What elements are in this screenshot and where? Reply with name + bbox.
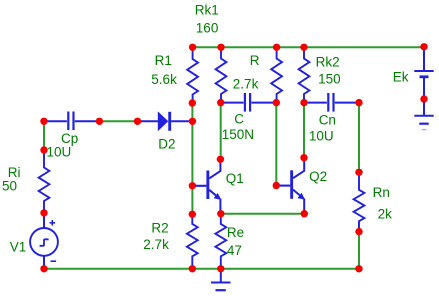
node Cn right <box>355 99 362 106</box>
svg-text:Q1: Q1 <box>226 171 244 186</box>
node R1 bottom <box>189 99 196 106</box>
node R2 bottom rail <box>189 265 196 272</box>
resistor R1 5.6k <box>187 48 198 103</box>
node Re top <box>217 210 224 217</box>
svg-text:Ek: Ek <box>393 70 409 85</box>
svg-text:47: 47 <box>227 243 242 258</box>
node Rn bottom <box>355 228 362 235</box>
svg-text:Rk1: Rk1 <box>195 3 219 18</box>
resistor Rk2 150 <box>299 48 310 103</box>
svg-text:50: 50 <box>2 179 17 194</box>
node Rk2 top <box>300 44 307 51</box>
capacitor C 150N <box>221 93 277 112</box>
svg-text:Rn: Rn <box>373 185 390 200</box>
svg-text:150N: 150N <box>222 127 254 142</box>
svg-text:R1: R1 <box>155 53 172 68</box>
wire bottom rail <box>44 268 359 270</box>
node R top <box>273 44 280 51</box>
ground under Ek <box>414 116 433 130</box>
wire Rk2 bottom to Q2 collector <box>303 103 305 158</box>
node R2 top <box>189 211 196 218</box>
svg-text:Rk2: Rk2 <box>316 55 340 70</box>
node rail corner Rn <box>355 265 362 272</box>
node Q2 emitter <box>301 210 308 217</box>
resistor R2 2.7k <box>187 214 198 268</box>
node Q2 collector <box>300 154 307 161</box>
svg-text:2k: 2k <box>378 207 393 222</box>
node Rn top <box>355 169 362 176</box>
node C left <box>217 99 224 106</box>
node Ri top <box>40 146 47 153</box>
ground under Re <box>211 269 231 290</box>
resistor R 2.7k <box>271 48 282 103</box>
svg-text:5.6k: 5.6k <box>151 72 177 87</box>
wire Rk1 bottom to Q1 collector <box>220 103 222 160</box>
resistor Ri 50 <box>39 150 50 213</box>
source V1 <box>30 213 58 269</box>
node Ri bottom V1 plus <box>40 209 47 216</box>
node D2 anode <box>134 118 141 125</box>
svg-text:Re: Re <box>227 225 244 240</box>
svg-text:R: R <box>250 53 260 68</box>
svg-text:D2: D2 <box>158 137 175 152</box>
node Ek top <box>420 43 427 50</box>
svg-text:V1: V1 <box>10 240 27 255</box>
node Ek mid <box>420 95 427 102</box>
node Q1 collector <box>217 156 224 163</box>
capacitor Cp 10U <box>44 112 99 131</box>
svg-text:2.7k: 2.7k <box>233 77 259 92</box>
node Cp right <box>96 118 103 125</box>
diode D2 <box>138 111 193 131</box>
svg-text:10U: 10U <box>309 129 334 144</box>
wire left column Cp node to Ri top <box>43 121 45 150</box>
transistor Q1 <box>192 159 221 214</box>
wire emitter bus Re top to Q2 emitter <box>221 213 304 215</box>
wire top rail <box>193 46 424 48</box>
wire R bottom to Q2 base <box>275 103 277 186</box>
node D2 cathode <box>189 118 196 125</box>
resistor Re 47 <box>215 214 226 269</box>
svg-text:C: C <box>234 112 244 127</box>
wire between Cp and D2 <box>99 120 137 122</box>
node V1 minus rail <box>40 265 47 272</box>
wire Rn bottom to bottom rail <box>358 232 360 269</box>
capacitor Cn 10U <box>304 93 359 112</box>
wire Cn right node down to Rn top <box>358 103 360 173</box>
wire D2 cathode node down to R2 top (Q1 base tap) <box>191 103 193 214</box>
node Q1 base <box>189 182 196 189</box>
node Cn left <box>300 99 307 106</box>
svg-text:150: 150 <box>318 72 341 87</box>
svg-text:160: 160 <box>196 21 219 36</box>
node Cp left corner <box>40 118 47 125</box>
svg-text:10U: 10U <box>47 145 72 160</box>
battery Ek <box>414 47 433 116</box>
node Rk1 top <box>217 44 224 51</box>
node Re bottom rail <box>217 265 224 272</box>
resistor Rn 2k <box>354 172 365 231</box>
node Q2 base <box>273 182 280 189</box>
svg-text:Q2: Q2 <box>309 169 327 184</box>
svg-text:Cn: Cn <box>319 113 336 128</box>
transistor Q2 <box>276 159 305 214</box>
node C right <box>273 99 280 106</box>
svg-text:R2: R2 <box>151 221 168 236</box>
node dots <box>40 43 427 272</box>
svg-text:2.7k: 2.7k <box>143 237 169 252</box>
resistor Rk1 160 <box>216 48 227 103</box>
node R1 top <box>189 44 196 51</box>
